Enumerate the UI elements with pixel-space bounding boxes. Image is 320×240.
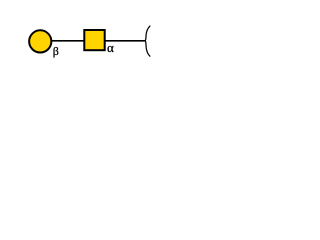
wire: Gal-GalNAc glycosidic bond bbox=[40, 40, 94, 42]
svg-text:α: α bbox=[107, 40, 114, 55]
monosaccharide GalNAc (yellow square) bbox=[84, 30, 104, 50]
reducing-end curly brace bbox=[145, 26, 150, 56]
svg-text:β: β bbox=[53, 44, 59, 58]
monosaccharide Gal (yellow circle) bbox=[29, 30, 51, 52]
wire: GalNAc to reducing-end bracket bbox=[94, 40, 145, 42]
